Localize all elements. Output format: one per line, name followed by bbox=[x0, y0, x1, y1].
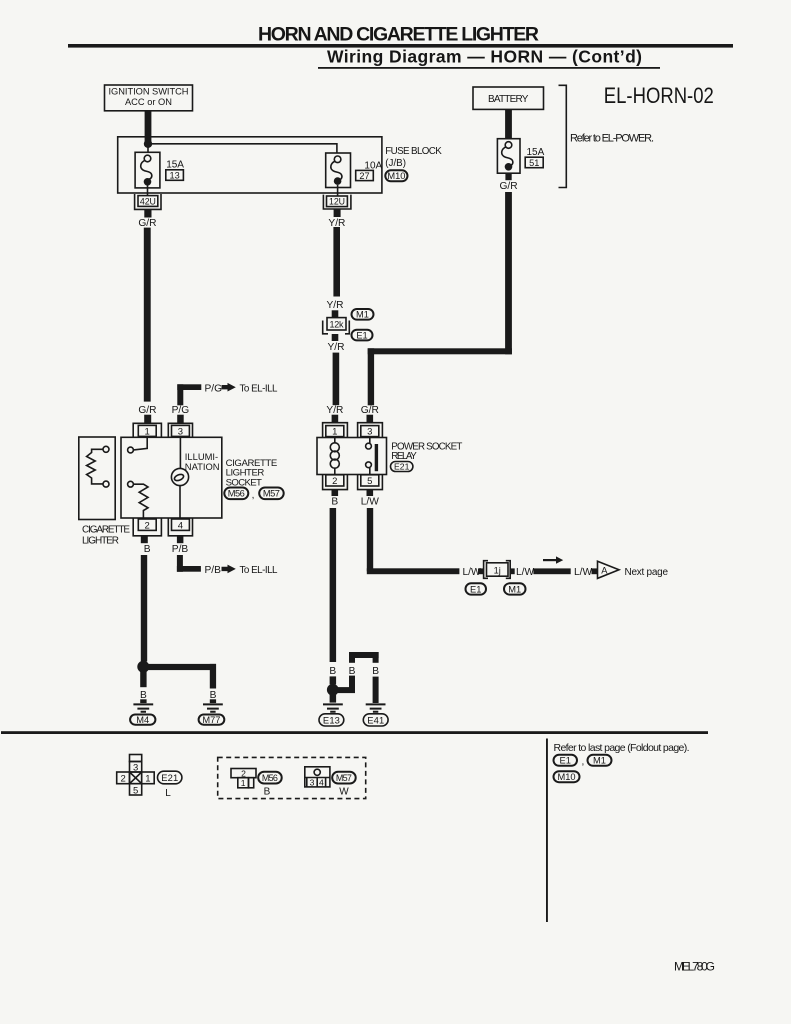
svg-text:M1: M1 bbox=[593, 756, 606, 766]
svg-text:1: 1 bbox=[145, 426, 150, 437]
wire G/R horizontal to relay bbox=[368, 348, 512, 354]
junction node in fuse block bbox=[144, 140, 152, 148]
wire stub M4 ground bbox=[140, 699, 146, 703]
connector 12U bbox=[323, 195, 351, 209]
arrow to EL-ILL lower bbox=[222, 565, 236, 574]
svg-text:L/W: L/W bbox=[574, 567, 592, 578]
svg-text:E21: E21 bbox=[161, 772, 178, 783]
junction dot E13 bbox=[327, 684, 339, 696]
oval M4 bbox=[130, 715, 155, 725]
cigarette lighter heating element bbox=[87, 446, 109, 487]
wire L/W segment bbox=[533, 568, 570, 574]
wire B left long bbox=[141, 555, 147, 662]
wire stub below socket pin 2 bbox=[141, 536, 148, 543]
svg-text:E21: E21 bbox=[394, 462, 410, 472]
wire below dot to E13 ground bbox=[330, 694, 337, 703]
connector view M57 bbox=[305, 767, 330, 788]
svg-text:M57: M57 bbox=[336, 773, 352, 783]
socket pin 4 bbox=[168, 519, 192, 536]
svg-text:12U: 12U bbox=[329, 197, 345, 207]
wire node to fuse 1 bbox=[147, 144, 149, 153]
wire stub into page connector bbox=[592, 568, 598, 574]
wire Y/R upper bbox=[333, 227, 340, 297]
svg-text:B: B bbox=[264, 786, 271, 797]
svg-text:15A: 15A bbox=[166, 159, 184, 170]
svg-text:5: 5 bbox=[367, 476, 372, 487]
page connector triangle A bbox=[598, 561, 620, 578]
oval E1 footnote bbox=[554, 755, 578, 766]
wire fuse1 to connector 42U bbox=[147, 186, 149, 197]
wire stub to socket pin 1 bbox=[144, 415, 151, 423]
wire B relay down bbox=[330, 508, 337, 662]
wire G/R long left bbox=[144, 228, 151, 402]
wire stub to socket pin 3 bbox=[177, 415, 184, 423]
terminal box 27 bbox=[356, 170, 374, 180]
svg-text:M10: M10 bbox=[557, 772, 575, 782]
svg-text:P/B: P/B bbox=[205, 565, 222, 576]
ground M77 bbox=[203, 704, 223, 711]
svg-text:1: 1 bbox=[145, 773, 150, 784]
svg-text:2: 2 bbox=[120, 773, 125, 784]
svg-text:E1: E1 bbox=[470, 584, 481, 594]
label CIGARETTE LIGHTER SOCKET bbox=[226, 458, 278, 488]
wire dot to U branch bbox=[333, 687, 355, 693]
wire stub below fuse 51 bbox=[505, 173, 511, 180]
svg-text:ACC or ON: ACC or ON bbox=[125, 97, 172, 107]
svg-text:CIGARETTE: CIGARETTE bbox=[82, 524, 130, 535]
terminal box 51 bbox=[525, 157, 543, 168]
svg-text:Wiring Diagram — HORN — (Cont’: Wiring Diagram — HORN — (Cont’d) bbox=[327, 47, 642, 67]
relay pin 3 bbox=[358, 423, 383, 438]
oval E1 bbox=[352, 330, 373, 341]
wire Y/R lower bbox=[333, 353, 340, 406]
wire stub below 12k bbox=[332, 334, 339, 341]
oval M1 below run bbox=[504, 583, 526, 594]
svg-text:G/R: G/R bbox=[361, 405, 379, 416]
label FUSE BLOCK bbox=[385, 146, 442, 169]
wire stub below relay pin 2 bbox=[332, 490, 339, 496]
wire stub below relay pin 5 bbox=[367, 490, 374, 496]
ground E41 bbox=[366, 704, 386, 711]
connector 42U bbox=[135, 194, 161, 209]
cigarette lighter box bbox=[79, 437, 115, 520]
label POWER SOCKET RELAY bbox=[391, 441, 462, 462]
oval E1 below run bbox=[466, 583, 487, 594]
wire stub below socket pin 4 bbox=[177, 536, 184, 543]
P/G branch wire bbox=[177, 384, 201, 405]
ground E13 bbox=[323, 704, 343, 711]
oval M10 footnote bbox=[554, 771, 580, 782]
svg-text:P/G: P/G bbox=[205, 383, 223, 394]
socket heater resistor bbox=[128, 481, 148, 518]
svg-text:LIGHTER: LIGHTER bbox=[82, 536, 119, 547]
oval E13 (double) bbox=[319, 714, 344, 726]
svg-text:G/R: G/R bbox=[138, 405, 156, 416]
svg-text:BATTERY: BATTERY bbox=[488, 94, 529, 105]
svg-text:E41: E41 bbox=[367, 714, 384, 725]
wire stub below 42U bbox=[144, 209, 151, 217]
svg-text:5: 5 bbox=[133, 785, 138, 796]
wire stub after 1j bbox=[510, 568, 515, 574]
wire stub above dot E13 bbox=[330, 676, 337, 684]
svg-text:L/W: L/W bbox=[361, 496, 379, 507]
direction arrow bbox=[543, 556, 563, 563]
junction dot left B bbox=[137, 661, 149, 673]
arrow to EL-ILL upper bbox=[222, 383, 236, 392]
wire stub below 12U bbox=[334, 209, 341, 217]
bus wire to fuse 2 bbox=[148, 144, 337, 153]
svg-text:EL-HORN-02: EL-HORN-02 bbox=[604, 83, 714, 108]
svg-text:Refer to last page (Foldout pa: Refer to last page (Foldout page). bbox=[554, 742, 690, 754]
svg-text:L/W: L/W bbox=[516, 567, 534, 578]
label ILLUMI-NATION bbox=[185, 451, 220, 472]
illumination lamp bbox=[171, 437, 188, 519]
bottom separator rule bbox=[1, 731, 708, 734]
wire fuse2 to connector 12U bbox=[337, 185, 339, 196]
svg-text:B: B bbox=[144, 544, 151, 555]
svg-text:NATION: NATION bbox=[185, 461, 220, 472]
svg-text:M56: M56 bbox=[228, 489, 245, 499]
svg-text:3: 3 bbox=[178, 426, 183, 437]
svg-text:Next page: Next page bbox=[625, 567, 669, 578]
oval M1 bbox=[352, 309, 374, 320]
oval M56 view bbox=[258, 772, 282, 784]
fuse F2 10A box bbox=[326, 153, 351, 188]
svg-text:(J/B): (J/B) bbox=[385, 158, 406, 169]
svg-text:13: 13 bbox=[169, 170, 179, 180]
wire stub to relay pin 3 bbox=[367, 415, 374, 423]
svg-text:P/G: P/G bbox=[172, 405, 190, 416]
svg-text:A: A bbox=[601, 565, 608, 575]
wire stub to relay pin 1 bbox=[332, 415, 339, 423]
cigarette lighter socket box bbox=[121, 437, 222, 518]
wire battery G/R down bbox=[505, 192, 512, 354]
svg-text:M56: M56 bbox=[262, 773, 278, 783]
svg-text:,: , bbox=[582, 757, 585, 768]
svg-text:51: 51 bbox=[529, 158, 539, 168]
oval M77 bbox=[199, 715, 225, 725]
svg-text:B: B bbox=[140, 690, 147, 701]
wire stub into 1j bbox=[478, 568, 484, 574]
relay pin 1 bbox=[323, 423, 348, 438]
relay pin 2 bbox=[323, 475, 348, 490]
ground M4 bbox=[133, 704, 153, 711]
svg-text:42U: 42U bbox=[140, 196, 156, 206]
label CIGARETTE LIGHTER bbox=[82, 524, 130, 546]
wire G/R down to relay pin 3 bbox=[368, 348, 374, 405]
svg-text:12k: 12k bbox=[330, 320, 345, 330]
fuse F1 element bbox=[141, 155, 152, 185]
socket pin 3 bbox=[168, 423, 192, 437]
relay pin 5 bbox=[358, 475, 383, 490]
svg-text:B: B bbox=[331, 496, 338, 507]
U branch to E41 bbox=[349, 652, 379, 703]
svg-text:4: 4 bbox=[319, 777, 324, 787]
svg-text:3: 3 bbox=[367, 427, 372, 438]
svg-text:E1: E1 bbox=[560, 756, 571, 766]
oval M1 footnote bbox=[588, 755, 612, 766]
svg-text:W: W bbox=[339, 786, 349, 797]
svg-text:E1: E1 bbox=[356, 330, 367, 340]
svg-text:2: 2 bbox=[145, 520, 150, 531]
svg-text:P/B: P/B bbox=[172, 544, 189, 555]
svg-text:Y/R: Y/R bbox=[326, 405, 343, 416]
socket switch contact bbox=[128, 437, 148, 453]
relay coil bbox=[330, 438, 339, 475]
svg-text:B: B bbox=[372, 666, 379, 677]
svg-text:1: 1 bbox=[332, 427, 337, 438]
svg-text:FUSE BLOCK: FUSE BLOCK bbox=[385, 146, 442, 157]
fuse 51 element bbox=[502, 142, 513, 171]
subtitle rule bbox=[318, 67, 660, 69]
svg-text:M57: M57 bbox=[263, 489, 280, 499]
svg-text:IGNITION SWITCH: IGNITION SWITCH bbox=[109, 87, 189, 97]
svg-text:3: 3 bbox=[310, 777, 315, 787]
footnote divider vertical bbox=[546, 739, 548, 923]
svg-text:B: B bbox=[349, 666, 356, 677]
svg-text:To EL-ILL: To EL-ILL bbox=[240, 565, 279, 576]
svg-text:L: L bbox=[165, 788, 171, 799]
fuse 51 15A box bbox=[497, 139, 520, 174]
svg-text:M77: M77 bbox=[202, 715, 220, 725]
inline connector 12k bbox=[323, 318, 350, 334]
svg-text:4: 4 bbox=[178, 520, 183, 531]
svg-text:RELAY: RELAY bbox=[391, 451, 417, 462]
fuse F2 element bbox=[331, 156, 342, 185]
svg-text:E13: E13 bbox=[323, 714, 340, 725]
svg-text:B: B bbox=[329, 666, 336, 677]
wire L/W down and right bbox=[367, 508, 460, 574]
oval M57 label bbox=[259, 488, 284, 500]
oval E21 view (double) bbox=[158, 771, 182, 784]
inline connector 1j bbox=[484, 561, 511, 579]
svg-text:MEL780G: MEL780G bbox=[674, 960, 715, 974]
relay contact bbox=[366, 438, 379, 475]
svg-text:,: , bbox=[252, 490, 255, 501]
socket pin 1 bbox=[133, 423, 161, 437]
svg-text:M10: M10 bbox=[387, 171, 405, 181]
oval M10 bbox=[385, 170, 407, 181]
ignition switch box bbox=[105, 85, 193, 111]
svg-text:G/R: G/R bbox=[138, 218, 156, 229]
oval M56 label bbox=[224, 488, 248, 500]
dashed connector group box bbox=[218, 757, 366, 798]
oval E21 label (double) bbox=[391, 462, 413, 472]
svg-text:G/R: G/R bbox=[499, 181, 517, 192]
svg-text:M1: M1 bbox=[508, 584, 521, 594]
svg-text:27: 27 bbox=[359, 171, 369, 181]
connector view M56 bbox=[231, 768, 256, 788]
P/B branch wire bbox=[177, 555, 201, 572]
wire stub M77 ground bbox=[210, 699, 216, 703]
fuse block box M10 bbox=[118, 137, 382, 193]
socket pin 2 bbox=[133, 519, 161, 536]
connector view E21 cross bbox=[117, 755, 155, 797]
terminal box 13 bbox=[166, 170, 184, 181]
oval E41 (double) bbox=[363, 714, 388, 726]
battery box bbox=[473, 87, 544, 109]
svg-text:Y/R: Y/R bbox=[327, 300, 344, 311]
svg-text:2: 2 bbox=[332, 476, 337, 487]
wire below dot to M4 bbox=[140, 671, 146, 687]
svg-text:M4: M4 bbox=[136, 715, 149, 725]
wire ignition switch to fuse block bbox=[145, 111, 152, 144]
fuse F1 15A box bbox=[135, 152, 160, 188]
refer bracket bbox=[559, 85, 567, 187]
svg-text:1j: 1j bbox=[494, 566, 501, 576]
svg-text:Y/R: Y/R bbox=[328, 342, 345, 353]
power socket relay box bbox=[317, 438, 387, 475]
title rule bbox=[68, 44, 733, 48]
svg-text:B: B bbox=[210, 690, 217, 701]
wire stub into 12k bbox=[332, 310, 339, 317]
svg-text:1: 1 bbox=[241, 778, 246, 788]
oval M57 view bbox=[332, 772, 356, 784]
svg-text:To EL-ILL: To EL-ILL bbox=[240, 383, 279, 394]
svg-text:M1: M1 bbox=[356, 310, 369, 320]
wire battery to fuse 51 bbox=[505, 109, 512, 139]
svg-text:HORN AND CIGARETTE LIGHTER: HORN AND CIGARETTE LIGHTER bbox=[258, 24, 539, 46]
svg-text:Refer to EL-POWER.: Refer to EL-POWER. bbox=[570, 132, 654, 144]
wire B branch to M77 bbox=[143, 664, 216, 689]
